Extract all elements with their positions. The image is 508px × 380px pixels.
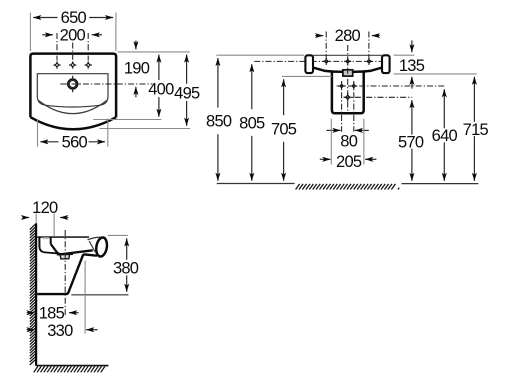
380 bottom reference line: [71, 294, 128, 296]
svg-text:495: 495: [174, 84, 200, 102]
svg-text:650: 650: [61, 9, 87, 27]
sliver left line: [89, 241, 95, 252]
dimension 280: [315, 27, 380, 60]
semi-pedestal box: [332, 72, 364, 114]
svg-text:135: 135: [399, 57, 425, 75]
inner basin outline: [37, 74, 108, 107]
dimension 805: [239, 64, 265, 181]
dimension 200: [42, 27, 102, 61]
bowl floor: [57, 250, 93, 254]
wall line: [35, 223, 37, 365]
dimension 850: [206, 58, 232, 181]
svg-text:850: 850: [206, 113, 232, 131]
shelf arc: [39, 101, 107, 114]
floor line left: [217, 183, 295, 185]
dimension 135: [394, 40, 477, 88]
svg-text:705: 705: [271, 120, 297, 138]
tap-hole centerline: [254, 60, 381, 62]
330 extension line: [84, 261, 86, 334]
basin bottom arc: [30, 117, 116, 129]
drain fitting: [60, 254, 70, 259]
bar fixing hole left: [323, 58, 330, 65]
drain flange: [57, 253, 73, 256]
dimension 715: [463, 77, 489, 181]
380 top reference line: [108, 234, 128, 236]
apron line: [83, 254, 97, 255]
svg-text:380: 380: [113, 259, 139, 277]
drain centerline horizontal: [60, 83, 152, 85]
dimension 640: [432, 89, 458, 181]
drain hole: [68, 79, 78, 89]
box hole lower: [344, 93, 352, 101]
bar fixing hole center: [344, 58, 351, 65]
svg-text:715: 715: [463, 121, 489, 139]
svg-text:560: 560: [62, 134, 88, 152]
bar top edge: [313, 54, 382, 56]
left end cap: [305, 55, 313, 73]
box hole centerline horizontal upper: [337, 85, 445, 87]
box center line vertical: [347, 45, 349, 112]
drain tab: [343, 70, 353, 76]
tap hole center: [69, 61, 76, 68]
bowl back slope: [51, 244, 58, 253]
dimension 400: [148, 55, 174, 117]
svg-text:805: 805: [239, 114, 265, 132]
right end cap: [382, 55, 390, 73]
svg-text:640: 640: [432, 127, 458, 145]
dimension 330: [27, 322, 98, 340]
box hole centerlines vertical: [342, 81, 354, 132]
dimension 650: [30, 9, 116, 51]
top reference line: [118, 51, 190, 53]
floor hatching: [34, 366, 105, 372]
floor line: [36, 365, 108, 367]
channel bottom curve: [39, 247, 57, 254]
dimension 120: [24, 199, 68, 236]
tap channel walls: [39, 237, 50, 247]
dimension 570: [398, 100, 424, 181]
box hole left: [338, 83, 345, 90]
svg-text:120: 120: [32, 199, 58, 217]
basin outer outline: [30, 54, 116, 118]
dimension 495: [174, 55, 200, 126]
svg-text:280: 280: [335, 27, 361, 45]
front diagonal and bottom: [37, 254, 83, 294]
705 reference line: [282, 75, 332, 77]
dimension 205: [320, 119, 377, 172]
svg-text:400: 400: [148, 81, 174, 99]
rim top reference line left: [216, 54, 304, 56]
box hole right: [351, 83, 358, 90]
drain centerline vertical: [64, 230, 66, 317]
tap channel gray: [43, 237, 49, 239]
dimension 560: [38, 118, 108, 151]
400 reference line: [93, 119, 161, 121]
dimension 190: [124, 41, 150, 98]
dimension 705: [271, 79, 297, 181]
wall hatching: [30, 224, 36, 365]
495 reference line: [99, 128, 190, 130]
dimension 185: [27, 305, 79, 323]
svg-text:80: 80: [340, 133, 357, 151]
rim top reference line right: [394, 54, 415, 56]
deck top line: [37, 236, 89, 238]
svg-text:185: 185: [39, 305, 65, 323]
bar fixing hole right: [366, 58, 373, 65]
rim crescent: [95, 237, 108, 258]
bar bottom edge: [313, 68, 382, 72]
rim top thin curve: [88, 237, 102, 240]
floor line right: [402, 183, 479, 185]
dimension 80: [327, 130, 369, 150]
box hole centerline horizontal lower: [344, 96, 413, 98]
tap hole left: [53, 61, 60, 68]
svg-text:190: 190: [124, 60, 150, 78]
floor hatching: [296, 184, 400, 190]
svg-text:570: 570: [398, 133, 424, 151]
dimension 380: [113, 238, 139, 291]
tap hole right: [85, 61, 92, 68]
svg-text:205: 205: [336, 153, 362, 171]
svg-text:330: 330: [47, 322, 73, 340]
svg-text:200: 200: [60, 27, 86, 45]
